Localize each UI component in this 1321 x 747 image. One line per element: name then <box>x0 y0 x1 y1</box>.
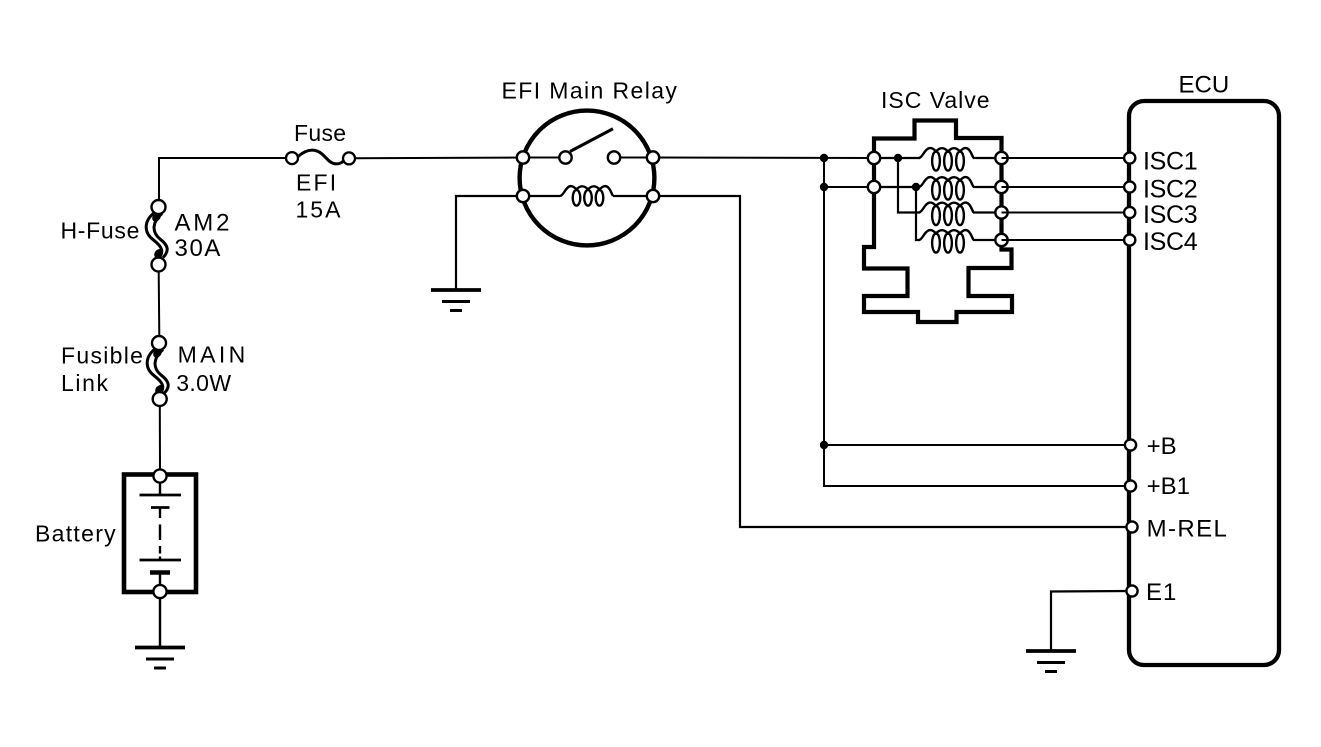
ISC valve left terminals <box>868 152 880 164</box>
svg-text:Battery: Battery <box>35 520 117 546</box>
svg-text:H-Fuse: H-Fuse <box>61 218 141 244</box>
ground (E1) <box>1026 651 1076 672</box>
EFI main relay U1 <box>520 111 655 246</box>
ECU pins <box>1124 152 1138 596</box>
ECU box <box>1129 101 1279 665</box>
svg-text:Fuse: Fuse <box>294 120 346 146</box>
svg-text:+B: +B <box>1147 433 1177 460</box>
wire: ISC2 row from node to valve <box>824 186 874 188</box>
H-fuse AM2 element <box>146 200 167 272</box>
wire: relay coil left to ground <box>456 196 523 290</box>
svg-text:+B1: +B1 <box>1147 473 1190 500</box>
svg-text:ISC Valve: ISC Valve <box>881 87 991 113</box>
svg-text:EFI Main Relay: EFI Main Relay <box>502 77 679 103</box>
ISC valve internals: coil 4 with feed from node on ISC2 row <box>916 187 1002 253</box>
svg-text:3.0W: 3.0W <box>176 370 231 396</box>
wire: battery branch top corner to fuse <box>159 158 286 200</box>
svg-text:15A: 15A <box>296 197 343 223</box>
wire: +B row <box>824 444 1130 446</box>
wire: node branch vertical x=824 down to +B1 corner <box>824 158 1130 486</box>
ground (relay) <box>431 290 481 311</box>
svg-text:M-REL: M-REL <box>1147 515 1229 542</box>
svg-text:ECU: ECU <box>1179 72 1230 99</box>
svg-text:Link: Link <box>61 370 110 396</box>
svg-text:ISC1: ISC1 <box>1143 148 1197 176</box>
wire: relay coil right to M-REL <box>653 196 1130 527</box>
wire: battery to ground <box>159 598 161 648</box>
wire: fusible link to battery <box>159 406 161 469</box>
svg-text:E1: E1 <box>1146 579 1177 606</box>
svg-text:ISC2: ISC2 <box>1143 175 1197 203</box>
fusible link MAIN element <box>147 336 168 406</box>
svg-text:ISC3: ISC3 <box>1143 201 1197 229</box>
ISC valve internals: coil 1 <box>874 148 1002 171</box>
battery <box>124 469 196 598</box>
switch blade <box>570 129 613 152</box>
svg-text:Fusible: Fusible <box>61 342 144 368</box>
svg-text:ISC4: ISC4 <box>1143 228 1198 256</box>
ISC valve right terminals <box>995 152 1007 164</box>
ISC valve body outline <box>864 121 1012 323</box>
svg-text:MAIN: MAIN <box>178 341 249 367</box>
ISC valve internals: coil 3 with feed from node on ISC1 row <box>898 158 1002 225</box>
wire: fuse to relay <box>355 157 523 160</box>
svg-text:30A: 30A <box>175 235 223 262</box>
wire: H-fuse to fusible link <box>158 272 161 337</box>
ground (battery) <box>135 648 185 669</box>
junction dots <box>820 154 828 162</box>
fuse EFI 15A <box>286 150 355 164</box>
switch contacts <box>559 151 571 163</box>
svg-text:EFI: EFI <box>296 169 338 195</box>
relay terminals <box>517 151 659 202</box>
wire: relay to ISC valve terminal <box>653 157 874 160</box>
wires: valve to ECU pins ISC1-ISC4 <box>1002 157 1131 159</box>
ISC valve internals: coil 2 <box>874 177 1002 200</box>
relay coil <box>523 195 560 197</box>
svg-text:AM2: AM2 <box>175 210 233 237</box>
wire: E1 to ground <box>1051 591 1130 651</box>
